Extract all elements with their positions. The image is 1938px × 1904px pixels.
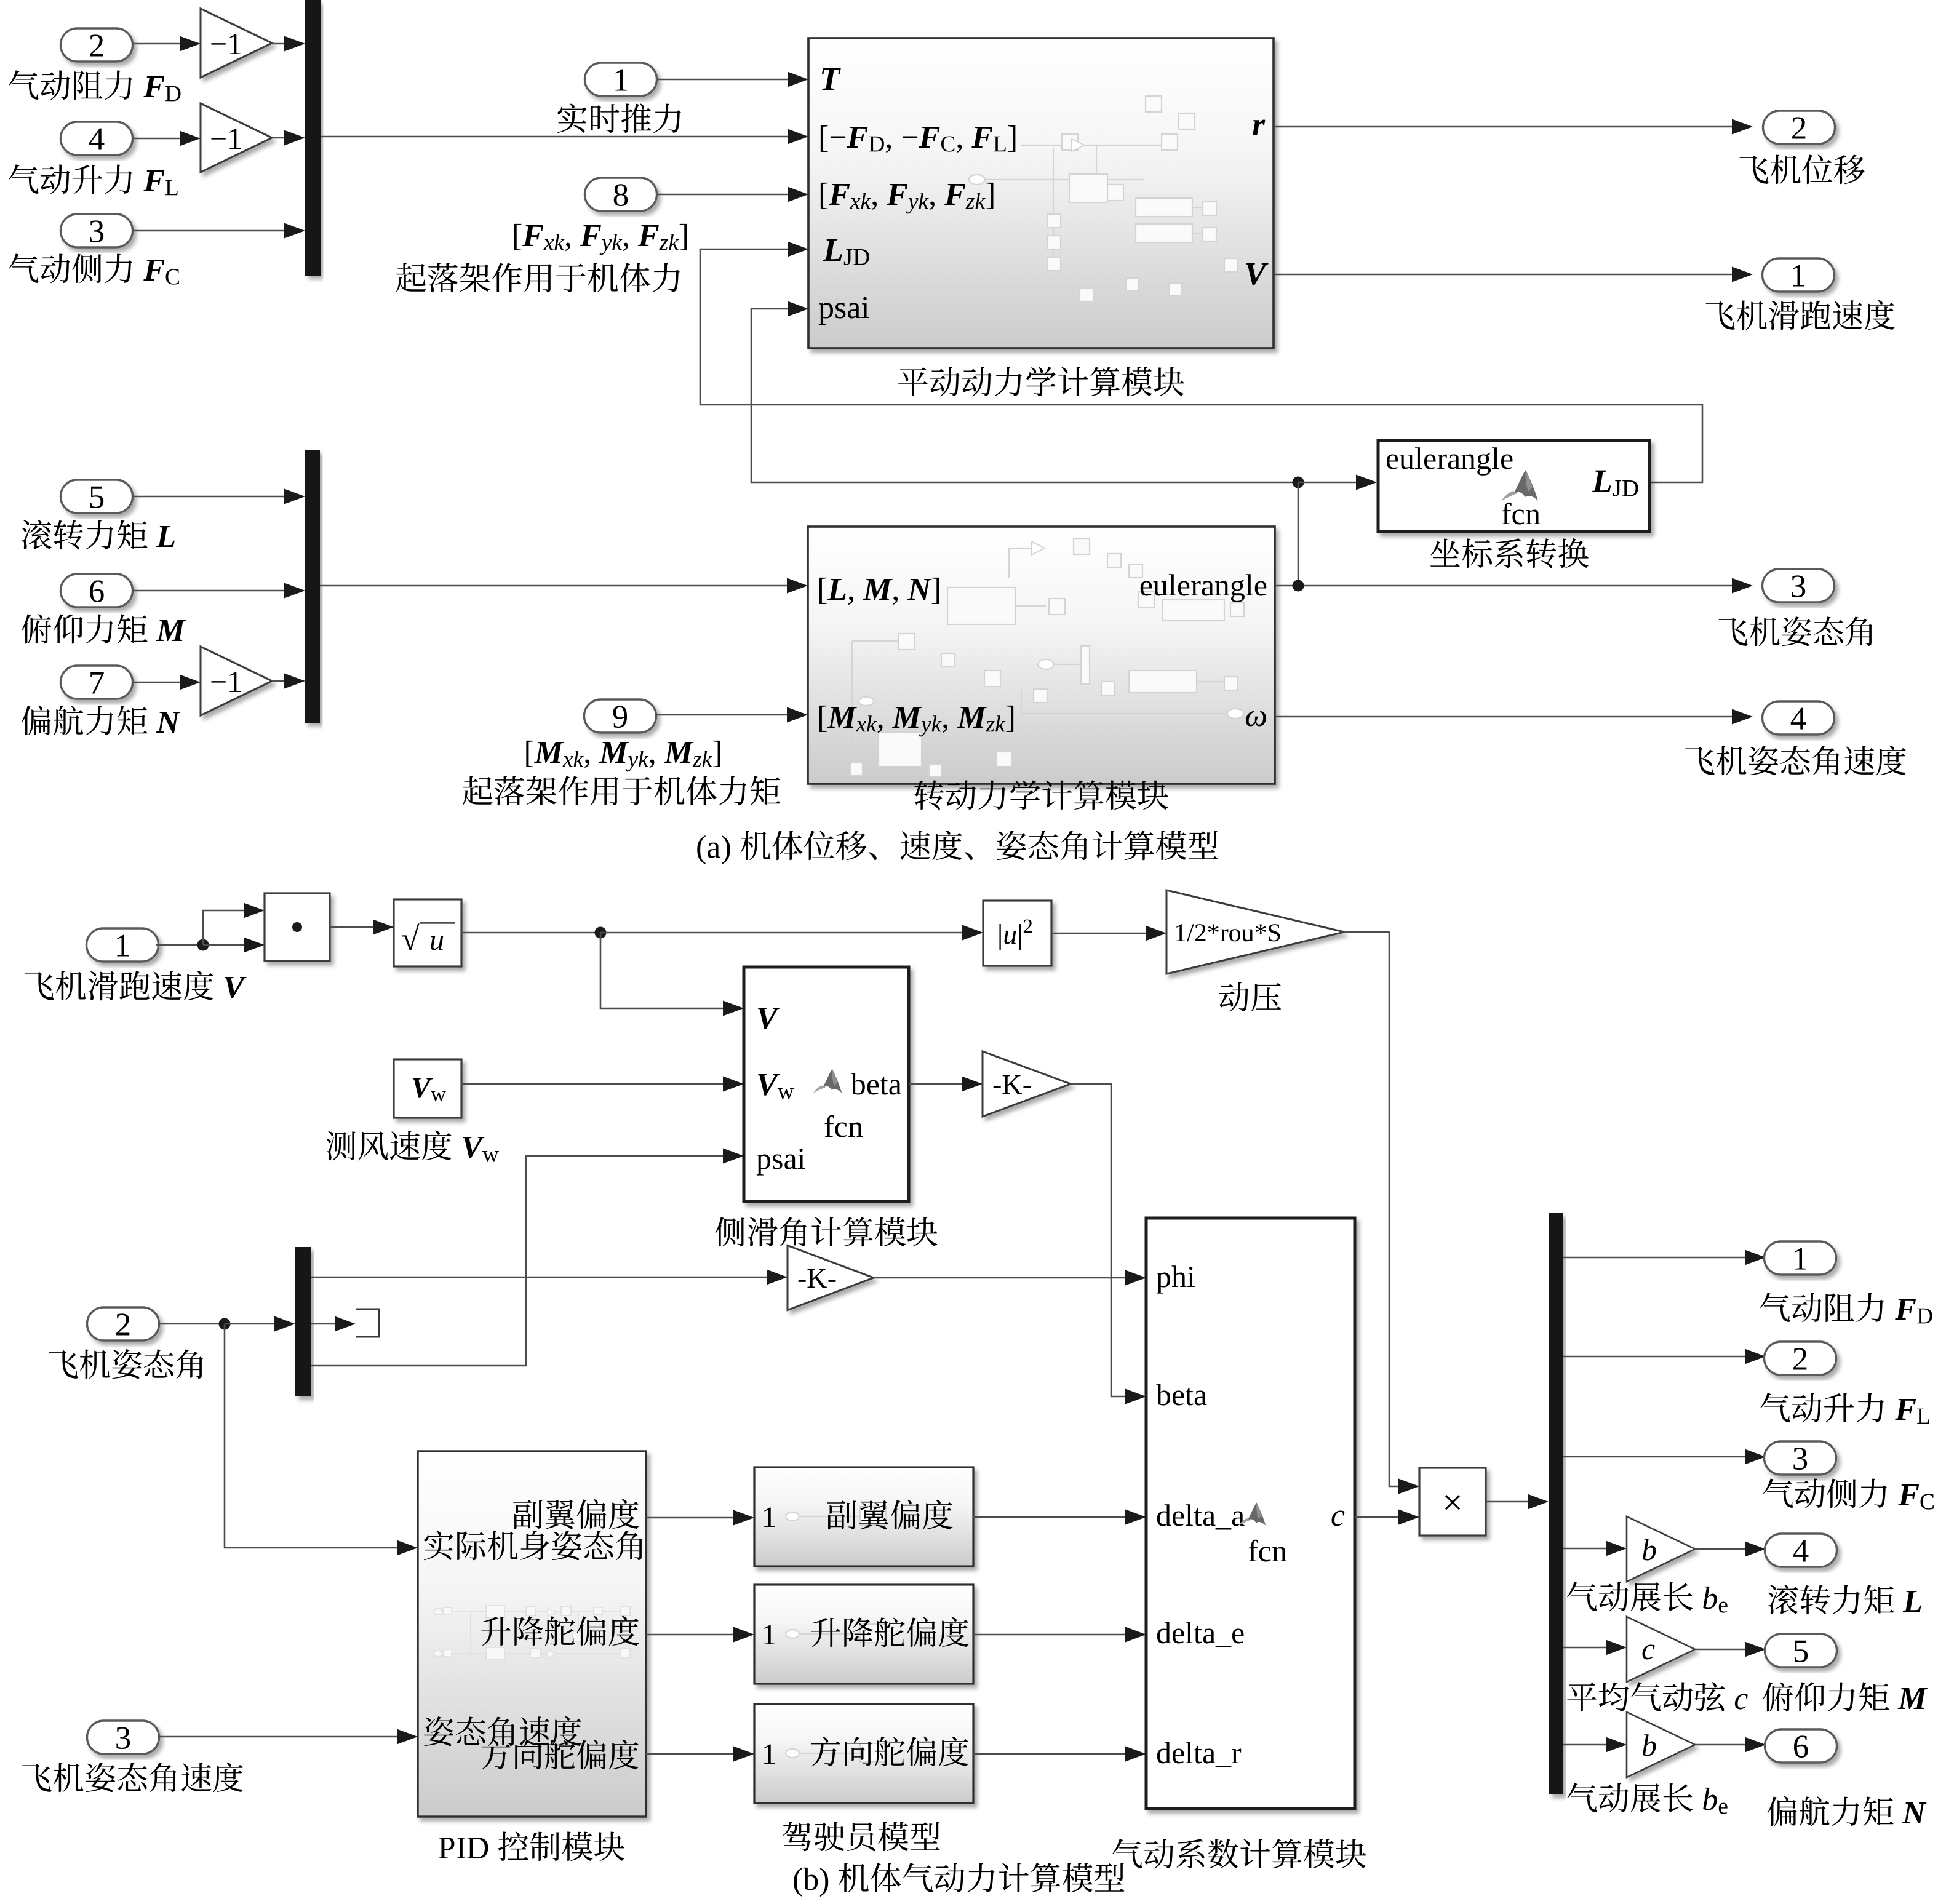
wire branch main xyxy=(203,938,265,953)
junction eulerangle xyxy=(1293,580,1304,592)
block 方向舵偏度 driver xyxy=(754,1704,973,1803)
label 飞机姿态角速度 b xyxy=(22,1763,243,1793)
input port 1 xyxy=(585,63,657,96)
wire sqrt-out xyxy=(461,925,983,941)
wire eulerangle-port3 xyxy=(1275,578,1753,594)
block 转动力学计算模块 xyxy=(808,527,1275,784)
label 飞机姿态角 xyxy=(1718,616,1873,646)
input port 6 xyxy=(61,574,133,607)
wire port8-blockA xyxy=(657,187,808,202)
output port 3 xyxy=(1763,569,1835,602)
label 气动侧力 FC out xyxy=(1763,1478,1934,1509)
wire betaK-coeff xyxy=(1071,1084,1146,1404)
wire dynp-product xyxy=(1344,932,1419,1494)
junction eulerangle-in xyxy=(1293,475,1378,586)
wire port4-gain xyxy=(132,131,201,146)
wire mux-blockB xyxy=(320,578,808,594)
gain 动压 xyxy=(1166,890,1344,974)
input port 5 xyxy=(61,480,133,513)
block u squared xyxy=(983,901,1051,966)
wire port2b xyxy=(158,1316,295,1332)
label 起落架作用于机体力矩 xyxy=(463,776,781,805)
block dot product xyxy=(265,893,330,961)
wire port5-mux xyxy=(132,489,305,504)
title PID 控制模块 xyxy=(439,1831,624,1861)
wire port6-mux xyxy=(132,583,305,599)
input port 2 xyxy=(61,28,133,62)
wire branch up xyxy=(203,903,265,946)
title 侧滑角计算模块 xyxy=(715,1217,937,1246)
wire port1b-junction xyxy=(156,939,209,951)
gain b yaw xyxy=(1627,1712,1695,1777)
gain -K- phi xyxy=(788,1246,874,1310)
title 转动力学计算模块 xyxy=(914,780,1168,810)
output port 4 (b) xyxy=(1765,1534,1837,1567)
title 坐标系转换 xyxy=(1430,538,1589,568)
label 气动展长 be 2 xyxy=(1567,1783,1728,1814)
wire gain-mux2 xyxy=(272,130,305,146)
label 起落架作用于机体力 xyxy=(396,263,680,292)
label 实时推力 xyxy=(557,103,681,133)
wire port3b-PID xyxy=(158,1729,418,1745)
label 气动侧力 FC xyxy=(9,253,179,284)
wire dp-sqrt xyxy=(330,920,394,935)
demux bar forces xyxy=(1549,1213,1563,1794)
output port 1 (b) xyxy=(1765,1241,1836,1275)
wire port2-gain xyxy=(132,36,201,52)
title 气动系数计算模块 xyxy=(1112,1839,1366,1868)
label 俯仰力矩 M out xyxy=(1763,1682,1928,1711)
wire phiK-coeff xyxy=(874,1270,1146,1286)
label 测风速度 Vw xyxy=(326,1131,499,1162)
label 气动阻力 FD xyxy=(9,70,181,101)
wire r-port2 xyxy=(1274,119,1753,135)
wire LJD loop xyxy=(700,242,1702,483)
input port 7 xyxy=(61,666,133,699)
input port 2 (b) xyxy=(87,1307,159,1340)
gain -K- beta xyxy=(983,1051,1071,1117)
wire product-demux xyxy=(1486,1494,1549,1510)
gain -1 (N) xyxy=(201,647,272,715)
output port 4 xyxy=(1763,701,1835,735)
wire demux-gainb1 xyxy=(1563,1541,1627,1556)
title 驾驶员模型 xyxy=(783,1822,940,1851)
wire demux-term xyxy=(311,1316,356,1332)
label 气动升力 FL xyxy=(9,164,178,195)
input port 3 xyxy=(61,214,133,247)
wire driver1-delta_a xyxy=(973,1510,1146,1525)
caption (b) xyxy=(794,1863,1124,1897)
label 气动阻力 FD out xyxy=(1760,1293,1932,1323)
label 偏航力矩 N out xyxy=(1768,1796,1927,1826)
label 滚转力矩 L xyxy=(22,520,175,549)
wire gainc-port5 xyxy=(1695,1642,1766,1657)
block 气动系数计算模块 xyxy=(1146,1218,1355,1809)
wire gainb1-port4 xyxy=(1695,1542,1766,1557)
block 侧滑角计算模块 xyxy=(744,967,909,1201)
label 飞机姿态角速度 xyxy=(1685,746,1906,776)
output port 2 xyxy=(1763,111,1835,144)
title 平动动力学计算模块 xyxy=(898,367,1184,396)
wire gain-mux xyxy=(272,36,305,52)
block sqrt xyxy=(394,899,461,966)
gain -1 (FD) xyxy=(201,9,272,78)
output port 3 (b) xyxy=(1765,1441,1836,1475)
label 滚转力矩 L out xyxy=(1768,1585,1921,1614)
wire demux-gainc xyxy=(1563,1640,1627,1655)
block Vw xyxy=(394,1059,461,1118)
block product xyxy=(1419,1468,1486,1536)
block 升降舵偏度 driver xyxy=(754,1585,973,1684)
mux bar forces xyxy=(305,0,321,276)
block PID 控制模块 xyxy=(418,1451,646,1817)
block 平动动力学计算模块 xyxy=(808,38,1274,348)
wire V-drop xyxy=(600,933,744,1016)
output port 1 xyxy=(1763,258,1835,292)
wire PID-driver3 xyxy=(646,1747,754,1762)
wire gain-mux3 xyxy=(272,674,305,689)
input port 4 xyxy=(61,122,133,155)
wire driver2-delta_e xyxy=(973,1627,1146,1643)
wire port3-mux xyxy=(132,223,305,239)
caption (a) xyxy=(697,831,1218,864)
wire demux-phi gain xyxy=(311,1270,788,1285)
gain b roll xyxy=(1627,1516,1695,1582)
label 飞机滑跑速度 V xyxy=(25,971,246,1001)
label 气动展长 be 1 xyxy=(1567,1582,1728,1612)
wire PID-driver1 xyxy=(646,1510,754,1526)
wire c-product xyxy=(1355,1510,1419,1525)
wire u2-gain xyxy=(1051,926,1166,941)
label 飞机姿态角 b xyxy=(49,1349,203,1379)
output port 5 (b) xyxy=(1765,1634,1837,1667)
label 俯仰力矩 M xyxy=(22,614,186,643)
wire omega-port4 xyxy=(1275,709,1753,725)
label Fxk vector xyxy=(514,224,687,255)
label 动压 xyxy=(1219,982,1281,1011)
input port 3 (b) xyxy=(87,1721,159,1754)
terminator xyxy=(356,1309,379,1337)
output port 6 (b) xyxy=(1765,1729,1837,1763)
output port 2 (b) xyxy=(1765,1342,1836,1375)
wire port7-gain xyxy=(132,675,201,690)
input port 8 xyxy=(585,178,657,211)
wire demux-out1 xyxy=(1563,1250,1766,1265)
gain -1 (FL) xyxy=(201,103,272,172)
label Mxk vector xyxy=(526,741,720,771)
label 平均气动弦 c xyxy=(1567,1682,1748,1711)
wire Vw-block xyxy=(461,1077,744,1092)
label 偏航力矩 N xyxy=(22,706,181,736)
wire gainb2-port6 xyxy=(1695,1737,1766,1753)
wire driver3-delta_r xyxy=(973,1747,1146,1762)
mux bar moments xyxy=(305,450,320,723)
gain c pitch xyxy=(1627,1617,1695,1682)
wire port9-blockB xyxy=(655,707,808,723)
label 飞机位移 xyxy=(1739,154,1865,184)
input port 9 xyxy=(584,699,656,733)
wire mux-blockA xyxy=(321,129,808,145)
wire psai feed xyxy=(751,301,1298,483)
block 坐标系转换 xyxy=(1378,440,1649,532)
block 副翼偏度 driver xyxy=(754,1467,973,1566)
label 气动升力 FL out xyxy=(1760,1393,1929,1424)
wire attitude-PID xyxy=(225,1324,418,1556)
wire PID-driver2 xyxy=(646,1627,754,1643)
wire demux-gainb2 xyxy=(1563,1737,1627,1753)
wire port1-T xyxy=(657,72,808,87)
label 飞机滑跑速度 xyxy=(1705,300,1894,330)
demux bar attitude xyxy=(295,1247,311,1396)
wire V-port1 xyxy=(1274,267,1753,282)
wire demux-out2 xyxy=(1563,1349,1766,1364)
wire beta-gain xyxy=(909,1077,983,1092)
wire demux-out3 xyxy=(1563,1449,1766,1465)
input port 1 (b) xyxy=(87,928,159,962)
wire demux-psai xyxy=(311,1149,744,1366)
